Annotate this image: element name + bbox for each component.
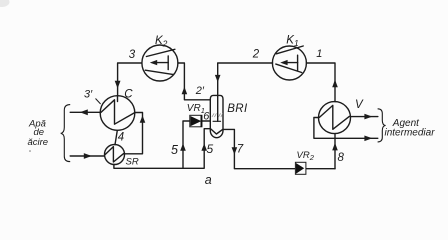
svg-text:5: 5 [207, 142, 214, 156]
valve VR2 [295, 162, 306, 174]
brace right (agent group) [378, 109, 386, 142]
svg-text:5: 5 [171, 143, 178, 157]
valve VR1 [190, 115, 202, 127]
svg-text:2: 2 [252, 49, 260, 61]
arrow right on water inlet [84, 153, 92, 159]
wire 4: C bottom to SR top [115, 130, 117, 144]
wire 8: V bottom down to VR2 line [334, 134, 336, 169]
arrow down on 2 line [215, 75, 221, 82]
svg-text:7: 7 [237, 143, 244, 155]
arrow up on 5 branch [180, 143, 186, 150]
compressor K1 [272, 46, 306, 80]
arrow left inside K1 [280, 60, 287, 65]
svg-text:BRI: BRI [227, 103, 248, 115]
arrow up on water riser [140, 115, 146, 122]
arrow up on 2' line [182, 87, 188, 94]
arrow right brine bottom [364, 136, 372, 142]
svg-text:a: a [205, 173, 212, 187]
wire 5 branch to VR1 [183, 121, 190, 168]
svg-text:VR1: VR1 [187, 103, 205, 115]
arrowheads [80, 60, 373, 159]
wire: brine return loop around V [314, 118, 378, 139]
svg-text:8: 8 [338, 152, 345, 164]
svg-text:V: V [355, 99, 364, 111]
arrow up on 1 line [332, 80, 338, 88]
svg-text:K2: K2 [155, 35, 168, 48]
arrow left inside K2 [150, 60, 157, 65]
svg-text:3: 3 [129, 49, 136, 61]
brace left (cooling water group) [61, 105, 70, 162]
arrow up on 5 coil line [201, 143, 207, 150]
svg-text:VR2: VR2 [297, 150, 315, 162]
svg-text:intermediar: intermediar [385, 127, 436, 138]
vessel BRI [210, 95, 223, 137]
svg-text:6: 6 [203, 111, 210, 123]
wire 2': BRI vapor to K2 suction [178, 63, 211, 100]
wire 1: evaporator V to K1 suction [306, 63, 335, 102]
wire 2: K1 discharge to BRI top [218, 63, 273, 121]
svg-text:2′: 2′ [195, 85, 205, 97]
compressor K2 [142, 45, 178, 81]
arrow up on 8 line [332, 143, 338, 151]
wire: brine outlet V right to brace [350, 116, 377, 118]
svg-text:4: 4 [118, 132, 124, 144]
svg-text:C: C [124, 89, 133, 101]
arrow down into C [115, 81, 121, 89]
wire: cooling water riser SR to C [124, 113, 142, 154]
svg-text:SR: SR [126, 156, 139, 167]
leader tick for 3' [96, 99, 101, 105]
svg-text:1: 1 [316, 48, 322, 60]
wire 3: K2 discharge to condenser C [118, 63, 142, 96]
condenser C [100, 96, 135, 131]
svg-text:ăcire: ăcire [28, 137, 49, 148]
arrow left on water outlet [80, 109, 88, 115]
wire: cooling water out of C to brace [70, 111, 100, 113]
wire 6: VR1 outlet to BRI shell [202, 120, 210, 122]
svg-text:3′: 3′ [84, 89, 93, 101]
wire 7: BRI coil outlet to VR2 and up node 8 [223, 129, 335, 168]
arrow right brine top [364, 114, 372, 120]
arrow down on 7 line [232, 147, 238, 154]
scan artifacts [0, 0, 10, 7]
wire: cooling water from brace into SR [70, 155, 104, 157]
subcooler SR [105, 145, 125, 165]
svg-text:K1: K1 [286, 35, 299, 48]
evaporator V [319, 102, 351, 134]
wire 5: SR outlet bottom line to BRI coil inlet [114, 129, 210, 169]
